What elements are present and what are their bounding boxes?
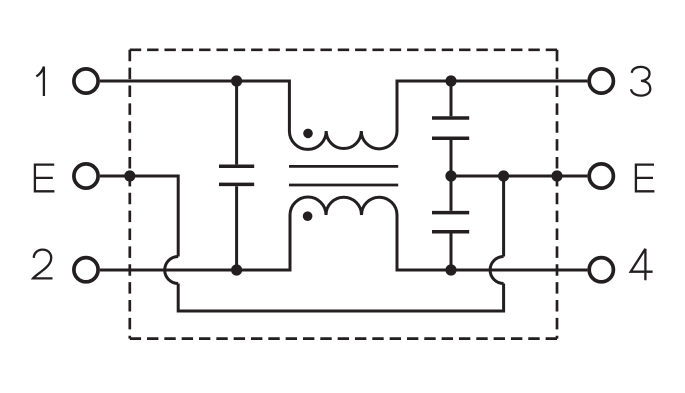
wire: E descent to ground bus and bus run <box>178 284 503 312</box>
junction node: line3 / C2 top <box>445 75 456 86</box>
junction node: E right on case <box>551 170 562 181</box>
capacitor C3 plates <box>432 213 469 232</box>
junction node: line4 / C3 bottom <box>445 264 456 275</box>
junction node: C2/C3/E <box>445 170 456 181</box>
junction node: line1 / C1 top <box>231 75 242 86</box>
capacitor C1 (X-cap) top lead <box>235 81 238 164</box>
phase dot top winding <box>303 129 313 139</box>
terminal E left (circle) <box>74 164 98 188</box>
terminal 1 (circle) <box>74 69 98 93</box>
capacitor C2 to E junction lead <box>450 140 453 176</box>
wire: line 1 from terminal 1 to choke <box>100 81 289 131</box>
terminal E right (circle) <box>589 164 613 188</box>
capacitor C1 bottom lead <box>235 186 238 270</box>
core lines of common-mode choke <box>289 166 398 185</box>
phase dot bottom winding <box>303 211 313 221</box>
wire: terminal E left to ground bus <box>100 176 178 257</box>
choke bottom winding L2 <box>290 197 397 215</box>
capacitor C1 plates <box>219 166 254 184</box>
label E right <box>636 165 655 192</box>
wire: line 4 from choke to terminal 4 <box>397 215 587 270</box>
wire: riser up to E line <box>502 176 505 257</box>
wire: line 3 from choke to terminal 3 <box>397 81 587 131</box>
wire hop: E wire over line 2 <box>165 257 179 284</box>
wire: line 2 from terminal 2 to choke <box>100 215 290 270</box>
choke top winding L1 <box>289 131 397 149</box>
wire: E line right section <box>451 175 587 178</box>
label E left <box>35 165 55 192</box>
shield case (dashed box) <box>130 50 557 339</box>
label 1 <box>36 67 44 96</box>
label 3 <box>631 67 650 96</box>
junction node: riser / E line <box>498 170 509 181</box>
wire hop: riser over line 4 <box>490 257 504 284</box>
capacitor C2 plates <box>432 118 469 138</box>
terminal 4 (circle) <box>589 258 613 282</box>
label 2 <box>33 250 53 279</box>
terminal 2 (circle) <box>74 258 98 282</box>
terminal 3 (circle) <box>589 69 613 93</box>
junction node: line2 / C1 bottom <box>231 264 242 275</box>
capacitor C3 bottom lead <box>450 234 453 271</box>
capacitor C2 (Y-cap top) lead <box>450 81 453 116</box>
junction node: E left on case <box>124 170 135 181</box>
label 4 <box>631 249 653 281</box>
capacitor C3 (Y-cap bottom) lead <box>450 176 453 211</box>
